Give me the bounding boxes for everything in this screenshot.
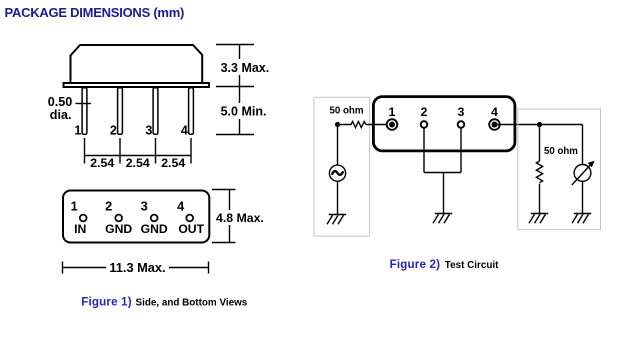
- wire to DUT ground: [443, 173, 445, 214]
- wire DUT left border to terminal 1: [374, 124, 393, 126]
- svg-text:0.50: 0.50: [48, 95, 73, 109]
- length dimension line (11.3 Max.): [63, 267, 209, 269]
- AC source V1: [329, 165, 345, 181]
- ground (source): [327, 215, 346, 225]
- pitch dimension tick pin4: [190, 138, 192, 164]
- svg-text:2.54: 2.54: [90, 156, 114, 170]
- node junction (load): [537, 122, 542, 127]
- resistor R1 50 ohm (series): [351, 122, 366, 128]
- svg-text:GND: GND: [141, 222, 168, 236]
- pad circle 2 (bottom view): [115, 215, 122, 222]
- pitch dimension tick pin3: [155, 138, 157, 164]
- DUT box (filter under test): [373, 97, 515, 151]
- svg-text:2.54: 2.54: [126, 156, 150, 170]
- leader line for pin diameter: [76, 103, 92, 105]
- meter M1: [574, 165, 591, 182]
- pad circle 4 (bottom view): [186, 215, 193, 222]
- svg-text:Side, and Bottom Views: Side, and Bottom Views: [136, 297, 248, 308]
- svg-text:2: 2: [105, 198, 112, 213]
- ground (load resistor): [529, 214, 548, 224]
- svg-text:1: 1: [389, 105, 396, 119]
- package base flange: [64, 83, 210, 87]
- ground (DUT): [433, 214, 452, 224]
- value label 11.3 Max.: [106, 260, 169, 274]
- svg-text:Test Circuit: Test Circuit: [445, 260, 499, 271]
- terminal 4 (coax): [489, 119, 500, 130]
- wire source node to resistor: [338, 124, 352, 126]
- svg-text:3.3 Max.: 3.3 Max.: [221, 61, 270, 75]
- load box: [518, 109, 601, 230]
- svg-text:OUT: OUT: [178, 222, 204, 236]
- value label 4.8 Max.: [214, 210, 266, 225]
- svg-text:3: 3: [458, 105, 465, 119]
- pitch dimension tick pin2: [119, 138, 121, 164]
- svg-text:50 ohm: 50 ohm: [330, 106, 364, 117]
- package outline (bottom view): [63, 191, 209, 243]
- svg-text:2: 2: [421, 105, 428, 119]
- terminal 3: [458, 121, 465, 128]
- svg-text:dia.: dia.: [50, 108, 72, 122]
- svg-text:50 ohm: 50 ohm: [544, 146, 578, 157]
- svg-text:1: 1: [74, 124, 81, 138]
- width dimension line (4.8 Max.): [229, 190, 231, 243]
- height dimension tick top: [216, 44, 254, 46]
- height dimension tick middle: [216, 86, 254, 88]
- pin 4 (side view): [189, 88, 194, 135]
- svg-text:3: 3: [141, 198, 148, 213]
- svg-text:GND: GND: [105, 222, 132, 236]
- wire joining terminals 2 and 3: [424, 172, 461, 174]
- value label 5.0 Min.: [217, 103, 271, 119]
- svg-text:IN: IN: [74, 222, 86, 236]
- source box: [314, 97, 370, 236]
- wire to meter: [582, 125, 584, 165]
- wire junction to load resistor: [539, 125, 541, 162]
- wire terminal 4 to load: [495, 124, 583, 126]
- svg-text:4: 4: [491, 105, 498, 119]
- svg-text:2.54: 2.54: [161, 156, 185, 170]
- svg-text:Figure 1): Figure 1): [81, 295, 132, 308]
- resistor R2 50 ohm (load): [536, 161, 542, 183]
- pitch dimension tick pin1: [84, 138, 86, 164]
- pin 2 (side view): [118, 88, 123, 135]
- svg-text:PACKAGE DIMENSIONS (mm): PACKAGE DIMENSIONS (mm): [5, 5, 185, 20]
- svg-text:3: 3: [145, 124, 152, 138]
- height dimension tick bottom: [216, 134, 254, 136]
- terminal 2: [421, 121, 428, 128]
- wire resistor to pin 1: [366, 124, 392, 126]
- wire load resistor to ground: [539, 184, 541, 214]
- wire AC source to ground: [337, 181, 339, 214]
- svg-text:11.3 Max.: 11.3 Max.: [109, 260, 165, 275]
- pin 3 (side view): [153, 88, 158, 135]
- node junction (source): [335, 122, 340, 127]
- svg-text:4.8 Max.: 4.8 Max.: [216, 211, 264, 225]
- wire meter to ground: [582, 181, 584, 213]
- terminal 1 (coax): [387, 119, 398, 130]
- pad circle 1 (bottom view): [80, 215, 87, 222]
- svg-text:4: 4: [181, 124, 188, 138]
- wire terminal 3 down: [460, 128, 462, 173]
- svg-text:4: 4: [177, 198, 185, 213]
- height dimension line: [239, 45, 241, 135]
- value label 3.3 Max.: [217, 59, 271, 75]
- pad circle 3 (bottom view): [151, 215, 158, 222]
- ground (meter): [572, 214, 591, 224]
- pitch dimension line: [85, 155, 192, 157]
- svg-text:2: 2: [110, 124, 117, 138]
- svg-text:1: 1: [71, 198, 78, 213]
- wire node to AC source: [337, 125, 339, 166]
- package can body (side view): [71, 45, 203, 83]
- wire terminal 2 down: [423, 128, 425, 173]
- pin 1 (side view): [82, 88, 87, 135]
- svg-text:5.0 Min.: 5.0 Min.: [221, 105, 267, 119]
- svg-text:Figure 2): Figure 2): [390, 258, 441, 271]
